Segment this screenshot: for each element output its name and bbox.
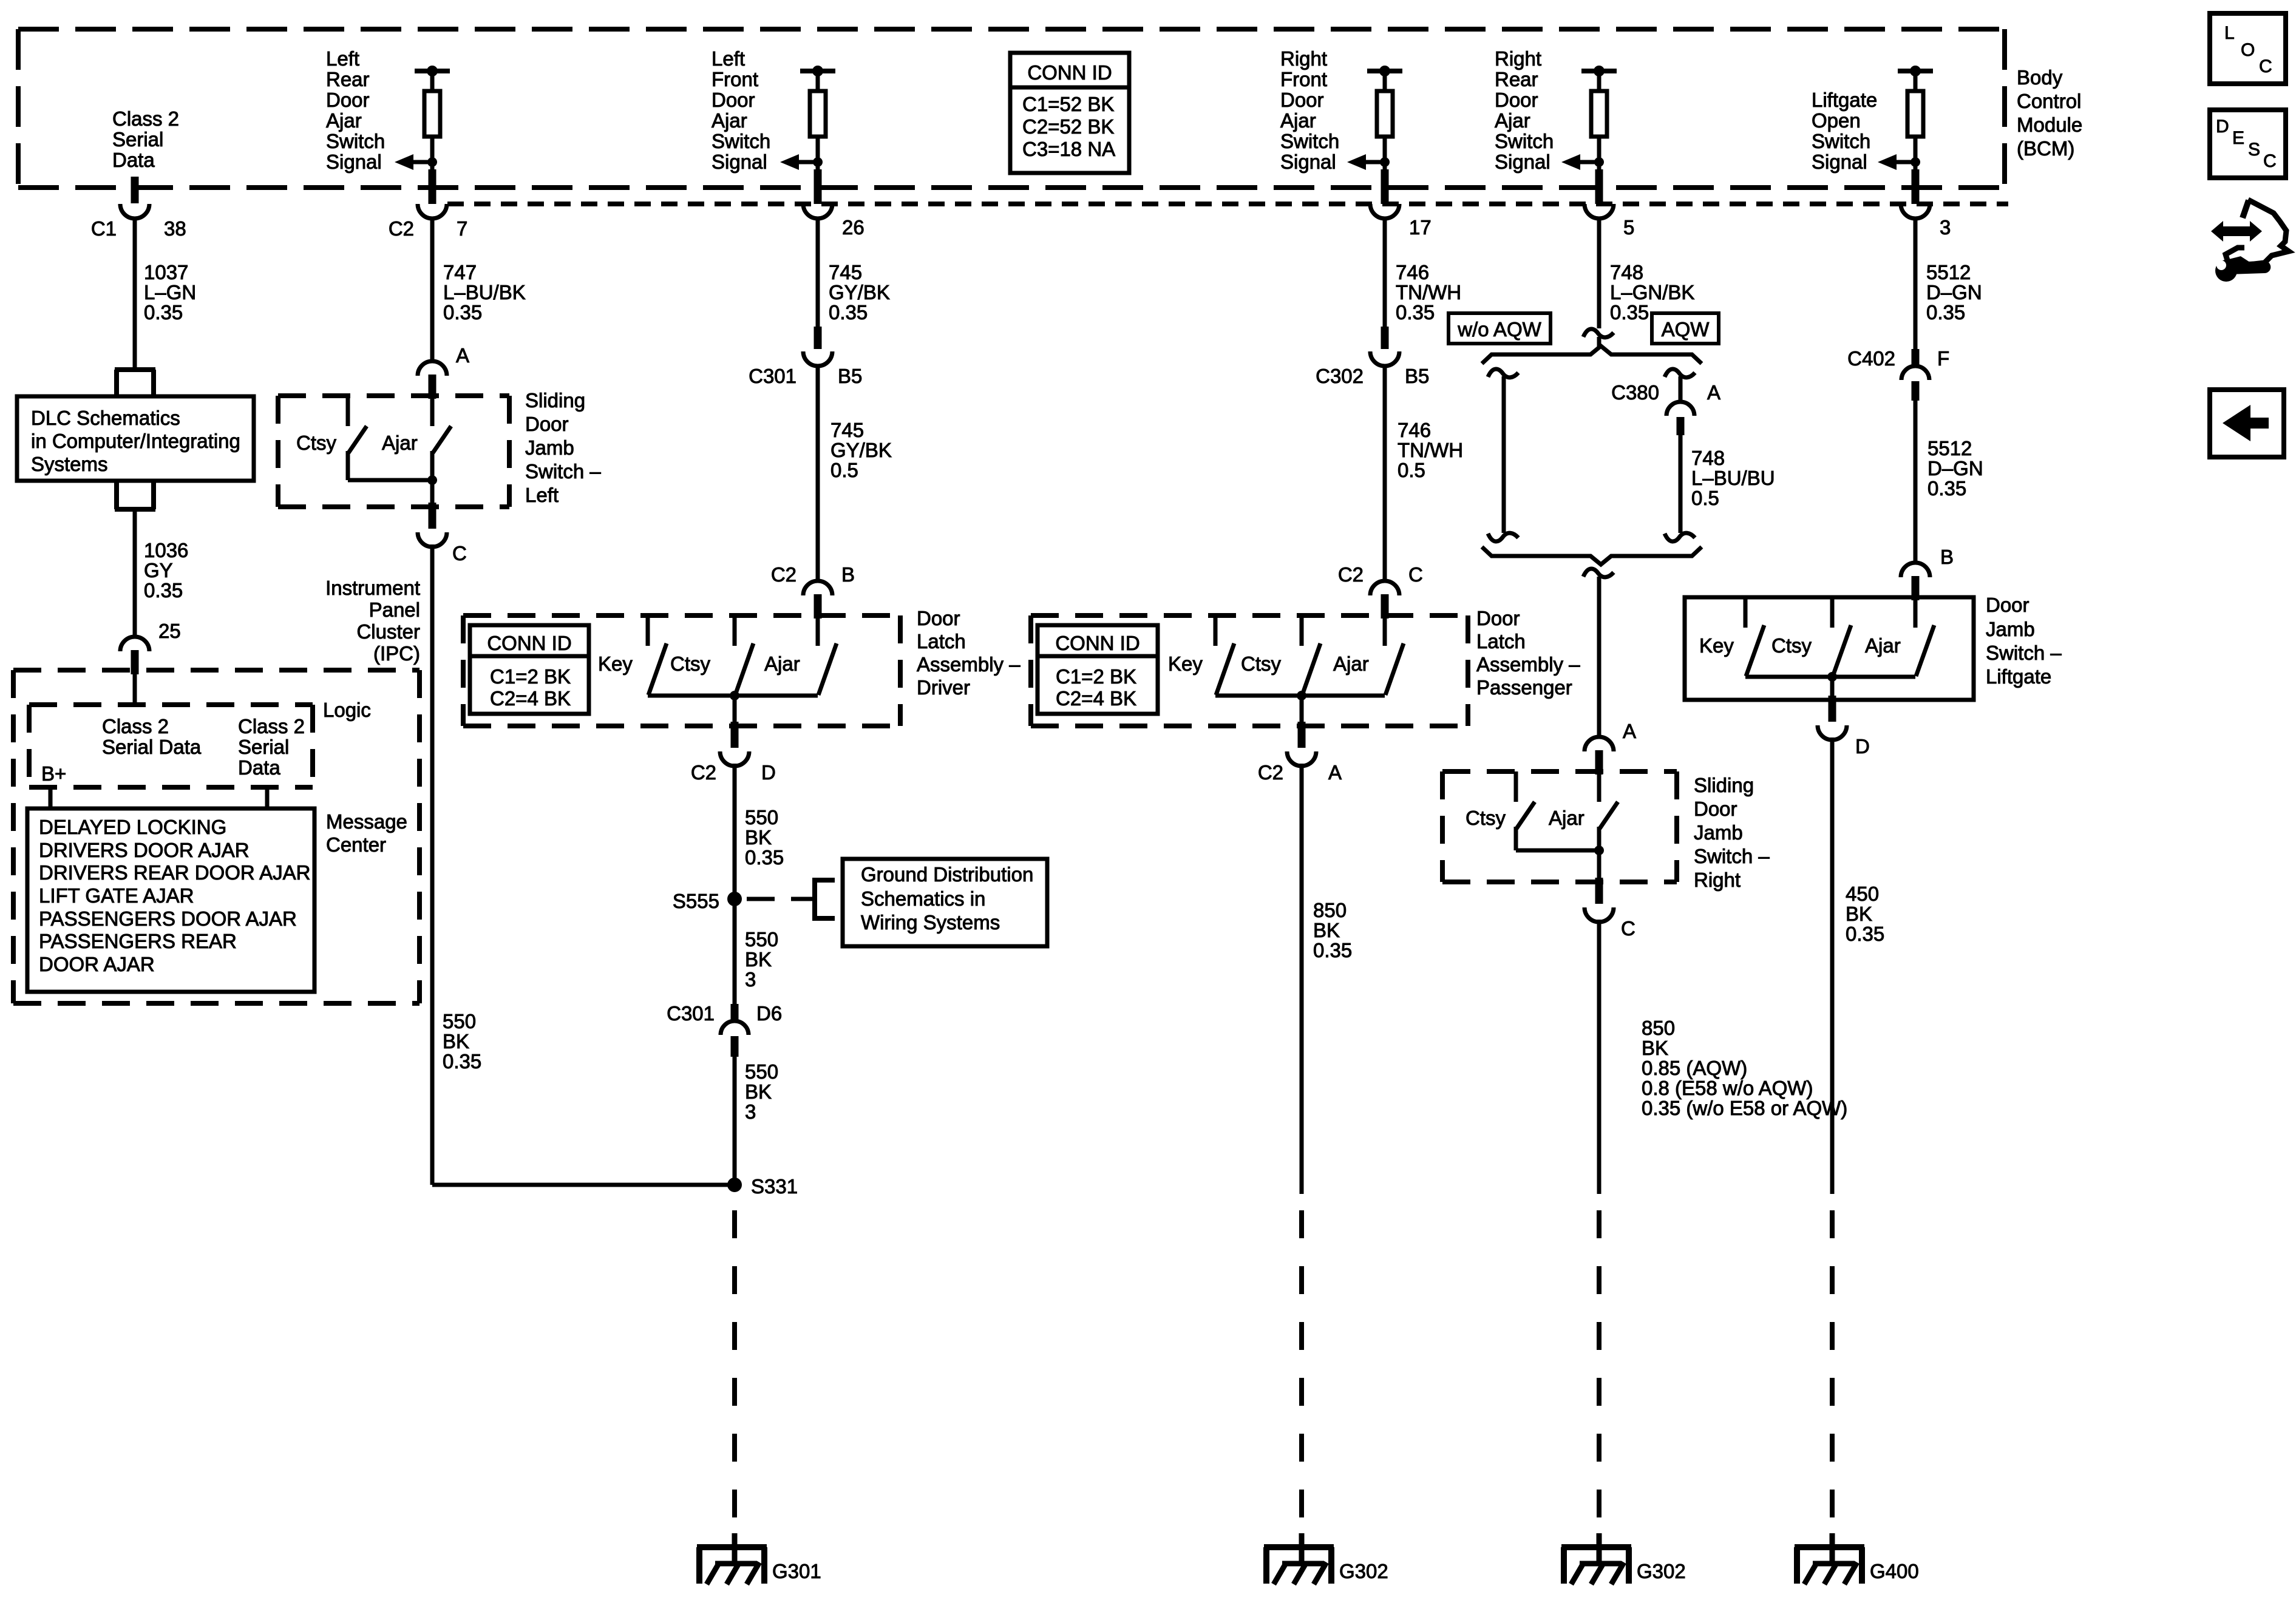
label Message Center (326, 810, 407, 856)
switch Ajar contact (sliding right) (1599, 771, 1618, 850)
svg-text:Ajar: Ajar (764, 653, 800, 675)
arrow left rear door signal (395, 154, 432, 170)
module IPC dashed box (13, 670, 419, 1003)
svg-text:LIFT GATE AJAR: LIFT GATE AJAR (39, 884, 194, 907)
label Logic (323, 699, 371, 721)
label connector C2 pin C (passenger latch) (1338, 563, 1423, 586)
box Logic dashed (29, 705, 313, 787)
label wire 1036 GY 0.35 (144, 539, 188, 602)
svg-text:Ajar: Ajar (326, 109, 362, 132)
svg-text:Left: Left (525, 484, 559, 506)
svg-text:Cluster: Cluster (356, 620, 420, 643)
svg-text:C1: C1 (91, 217, 117, 240)
svg-text:Serial: Serial (112, 128, 163, 151)
label wire 747 L-BU/BK 0.35 (443, 261, 526, 324)
svg-text:Ctsy: Ctsy (1466, 807, 1506, 829)
svg-text:C3=18 NA: C3=18 NA (1022, 138, 1115, 160)
splice S331 (727, 1178, 742, 1192)
svg-text:Instrument: Instrument (325, 577, 420, 599)
svg-text:Ajar: Ajar (1280, 109, 1316, 132)
svg-text:L–BU/BU: L–BU/BU (1691, 467, 1775, 489)
svg-text:D: D (2216, 117, 2229, 137)
svg-text:CONN ID: CONN ID (487, 632, 571, 654)
svg-text:Class 2: Class 2 (102, 715, 169, 737)
svg-text:3: 3 (1940, 216, 1951, 239)
svg-text:Control: Control (2017, 90, 2081, 112)
label connector C2 pin D (driver latch) (691, 761, 776, 784)
svg-text:C: C (1408, 563, 1423, 586)
svg-text:550: 550 (443, 1010, 476, 1032)
BCM pull-up bus bar right rear door (1581, 69, 1617, 73)
svg-text:Switch: Switch (326, 130, 385, 152)
svg-text:CONN ID: CONN ID (1027, 61, 1112, 84)
svg-text:GY/BK: GY/BK (830, 439, 892, 461)
svg-text:Message: Message (326, 810, 407, 833)
connector arc C402 F (1901, 366, 1929, 380)
label wire 745 GY/BK 0.35 (829, 261, 890, 324)
label right rear door ajar switch signal (1495, 47, 1554, 173)
label Sliding Door Jamb Switch - Right (1694, 774, 1770, 891)
svg-text:PASSENGERS REAR: PASSENGERS REAR (39, 930, 237, 952)
label Ctsy (sliding left) (296, 432, 337, 454)
wire right front door resistor to junction (1383, 137, 1387, 169)
svg-text:Left: Left (326, 47, 359, 70)
connector arc A into sliding door jamb switch right (1584, 737, 1614, 775)
connector arc C302 B5 (1370, 351, 1399, 366)
svg-text:G302: G302 (1637, 1560, 1686, 1582)
icon box DESC (2210, 110, 2286, 178)
arrow liftgate open signal (1878, 154, 1915, 170)
BCM pull-up bus bar liftgate open (1898, 69, 1933, 73)
icon service arrow and wrench (2211, 200, 2289, 282)
svg-text:GY/BK: GY/BK (829, 281, 890, 303)
svg-text:Ajar: Ajar (712, 109, 747, 132)
svg-text:C301: C301 (749, 365, 796, 387)
pin stub C380 (1677, 417, 1685, 435)
node dot top right rear door (1594, 66, 1605, 76)
svg-text:25: 25 (158, 620, 181, 642)
connector arc right rear door at BCM face (1584, 204, 1614, 219)
svg-text:Liftgate: Liftgate (1812, 89, 1877, 111)
pin stub A out of passenger latch box (1287, 722, 1316, 766)
svg-text:Data: Data (238, 756, 280, 779)
connector arc left front door at BCM face (803, 204, 832, 219)
node dot top liftgate open (1910, 66, 1921, 76)
label wire 745 GY/BK 0.5 (830, 419, 892, 481)
label pin 25 (158, 620, 181, 642)
wire 747 L-BU/BK (430, 219, 435, 361)
svg-text:B: B (841, 563, 855, 586)
wire 25 to Logic box (133, 673, 137, 705)
label Instrument Panel Cluster (IPC) (325, 577, 420, 665)
svg-text:Ajar: Ajar (1495, 109, 1530, 132)
junction staple above DLC box (115, 370, 155, 396)
pin stub C402 lower (1912, 381, 1920, 401)
table CONN ID (BCM C1=52 BK C2=52 BK C3=18 NA) (1010, 53, 1129, 173)
wire 550 BK 3 lower (733, 1057, 737, 1185)
svg-text:BK: BK (1313, 919, 1340, 941)
svg-text:Signal: Signal (712, 151, 767, 173)
label Ctsy (passenger latch) (1241, 653, 1282, 675)
svg-text:5512: 5512 (1927, 437, 1972, 459)
ground G400 (1795, 1533, 1919, 1584)
svg-text:Sliding: Sliding (1694, 774, 1754, 796)
label Class 2 Serial Data (logic right) (238, 715, 305, 779)
node junction dot left rear door (427, 157, 437, 167)
label Class 2 Serial Data (BCM) (112, 107, 179, 171)
module BCM (Body Control Module) dashed box (18, 29, 2005, 188)
splice S555 (727, 892, 742, 906)
svg-text:Center: Center (326, 833, 386, 856)
svg-text:0.35: 0.35 (1313, 939, 1352, 961)
svg-text:745: 745 (830, 419, 864, 441)
label pin 26 (842, 216, 864, 239)
svg-text:Switch: Switch (712, 130, 770, 152)
wire 850 BK sliding right to ground run (1597, 920, 1601, 1194)
pin stub liftgate open through BCM border (1912, 169, 1920, 204)
option branch left (w/o AQW) start squiggle (1488, 369, 1518, 378)
BCM pull-up bus bar right front door (1367, 69, 1402, 73)
svg-text:A: A (456, 344, 469, 367)
svg-text:0.35: 0.35 (829, 301, 868, 324)
label wire 550 BK 3 (upper) (745, 928, 778, 991)
switch Ajar contact (sliding left) (432, 396, 451, 480)
svg-text:Switch –: Switch – (525, 460, 601, 483)
label left rear door ajar switch signal (326, 47, 385, 173)
connector arc liftgate open at BCM face (1901, 204, 1930, 219)
wire liftgate common down (1830, 677, 1835, 697)
wire 748 L-BU/BU (1679, 435, 1683, 533)
svg-text:Right: Right (1280, 47, 1327, 70)
svg-text:Signal: Signal (1495, 151, 1550, 173)
svg-text:Switch: Switch (1495, 130, 1554, 152)
wire to sliding right switch (1597, 577, 1601, 737)
svg-text:Switch: Switch (1812, 130, 1870, 152)
box Message Center list (27, 808, 314, 992)
box Door Jamb Switch Liftgate (1685, 597, 1974, 700)
svg-text:A: A (1328, 761, 1342, 784)
svg-text:A: A (1623, 720, 1636, 742)
svg-text:Jamb: Jamb (1694, 821, 1743, 844)
svg-text:DRIVERS DOOR AJAR: DRIVERS DOOR AJAR (39, 839, 250, 861)
svg-text:748: 748 (1610, 261, 1643, 283)
switch Ajar contact (driver latch) (818, 615, 837, 695)
svg-text:D6: D6 (756, 1002, 782, 1025)
svg-text:Key: Key (1699, 634, 1734, 657)
svg-text:Open: Open (1812, 109, 1861, 132)
pin stub D out of driver latch box (720, 722, 749, 766)
svg-text:550: 550 (745, 928, 778, 951)
option branch left end squiggle (1488, 533, 1518, 541)
svg-text:D–GN: D–GN (1927, 457, 1983, 480)
switch Key contact (driver latch) (648, 615, 667, 695)
label Key (liftgate) (1699, 634, 1734, 657)
wire switch common link (driver latch) (648, 694, 818, 698)
svg-text:C: C (452, 542, 467, 564)
label Door Latch Assembly - Passenger (1476, 607, 1580, 699)
resistor R4 right rear door ajar input (1591, 91, 1607, 137)
label Ctsy (driver latch) (670, 653, 711, 675)
svg-text:0.35: 0.35 (1927, 477, 1966, 500)
label wire 746 TN/WH 0.5 (1398, 419, 1463, 481)
switch Ctsy contact (sliding left) (348, 396, 367, 480)
label pin 5 (1623, 216, 1634, 239)
node dot top left front door (812, 66, 823, 76)
box Sliding Door Jamb Switch Right dashed (1442, 771, 1677, 882)
svg-text:D: D (1855, 735, 1870, 758)
box option w/o AQW (1449, 313, 1550, 344)
svg-text:C: C (1621, 917, 1635, 940)
svg-text:B+: B+ (41, 762, 66, 785)
wire right front door bar to resistor (1383, 71, 1387, 91)
svg-text:Door: Door (1986, 594, 2029, 616)
BCM pull-up bus bar left rear door (415, 69, 450, 73)
label wire 850 BK 0.35 (1313, 899, 1352, 961)
label wire 550 BK 0.35 (driver) (745, 806, 784, 869)
svg-text:Signal: Signal (1812, 151, 1867, 173)
svg-text:Rear: Rear (326, 68, 370, 90)
svg-text:Left: Left (712, 47, 745, 70)
svg-text:D–GN: D–GN (1926, 281, 1982, 303)
svg-text:Ajar: Ajar (1549, 807, 1584, 829)
svg-text:0.85 (AQW): 0.85 (AQW) (1642, 1057, 1747, 1079)
svg-text:TN/WH: TN/WH (1398, 439, 1463, 461)
node junction dot liftgate open (1911, 157, 1920, 167)
svg-text:B: B (1940, 546, 1954, 568)
svg-text:850: 850 (1313, 899, 1347, 921)
svg-text:B5: B5 (1405, 365, 1429, 387)
brace option split top (1482, 346, 1702, 364)
pin stub D out of liftgate box (1818, 696, 1847, 740)
svg-text:0.8 (E58 w/o AQW): 0.8 (E58 w/o AQW) (1642, 1077, 1813, 1099)
svg-text:L–GN/BK: L–GN/BK (1610, 281, 1694, 303)
svg-text:C301: C301 (667, 1002, 715, 1025)
svg-text:F: F (1937, 347, 1949, 370)
svg-text:C2: C2 (1258, 761, 1283, 784)
wire liftgate open resistor to junction (1914, 137, 1918, 169)
wire left front door bar to resistor (816, 71, 820, 91)
svg-text:DRIVERS REAR DOOR AJAR: DRIVERS REAR DOOR AJAR (39, 861, 310, 884)
svg-text:Ajar: Ajar (382, 432, 418, 454)
svg-text:7: 7 (457, 217, 467, 240)
label Ajar (liftgate) (1865, 634, 1901, 657)
svg-text:Ctsy: Ctsy (670, 653, 711, 675)
node dot top right front door (1379, 66, 1390, 76)
svg-text:BK: BK (443, 1030, 469, 1053)
wire 748 L-GN/BK (1597, 219, 1601, 328)
connector arc C2 C into passenger latch (1370, 581, 1399, 619)
wire 550 BK 3 upper (733, 899, 737, 1005)
node dot liftgate common (1827, 672, 1837, 682)
svg-text:Door: Door (1495, 89, 1538, 111)
label wire 450 BK 0.35 (1846, 883, 1884, 945)
svg-text:Liftgate: Liftgate (1986, 665, 2051, 688)
svg-text:Ctsy: Ctsy (1241, 653, 1282, 675)
label wire 850 BK sizes (1642, 1017, 1847, 1119)
icon box LOC (2210, 13, 2286, 84)
svg-text:Ajar: Ajar (1333, 653, 1369, 675)
svg-text:Key: Key (1168, 653, 1203, 675)
label Key (passenger latch) (1168, 653, 1203, 675)
svg-text:G302: G302 (1339, 1560, 1388, 1582)
label Ajar (driver latch) (764, 653, 800, 675)
svg-text:17: 17 (1409, 216, 1432, 239)
svg-text:747: 747 (443, 261, 477, 283)
svg-text:BK: BK (1642, 1037, 1668, 1059)
wire dashed sliding right to G302 (1597, 1194, 1601, 1517)
box Ground Distribution note (843, 859, 1047, 946)
pin stub left front door through BCM border (814, 169, 822, 204)
node dot sliding left common (427, 475, 437, 485)
pin stub C out of sliding left box (418, 503, 447, 547)
svg-text:850: 850 (1642, 1017, 1675, 1039)
svg-text:Serial: Serial (238, 736, 289, 758)
svg-text:CONN ID: CONN ID (1055, 632, 1140, 654)
wire dashed liftgate to G400 (1830, 1194, 1835, 1517)
svg-text:Driver: Driver (917, 676, 970, 699)
svg-text:Panel: Panel (369, 598, 420, 621)
svg-text:450: 450 (1846, 883, 1879, 905)
connector arc C1 pin 38 (120, 204, 149, 219)
svg-text:0.35: 0.35 (1926, 301, 1965, 324)
pin stub C out of sliding right box (1584, 878, 1614, 922)
label pin 3 (1940, 216, 1951, 239)
switch Ctsy contact (passenger latch) (1302, 615, 1320, 695)
wire option branch left (1502, 376, 1506, 533)
svg-text:0.35: 0.35 (443, 1050, 481, 1073)
label wire 550 BK 3 (lower) (745, 1060, 778, 1123)
wire 746 TN/WH lower (1383, 366, 1387, 581)
svg-text:Logic: Logic (323, 699, 371, 721)
svg-text:C302: C302 (1316, 365, 1364, 387)
resistor R3 right front door ajar input (1377, 91, 1393, 137)
svg-text:C1=52 BK: C1=52 BK (1022, 93, 1114, 115)
svg-text:Body: Body (2017, 66, 2063, 89)
label connector C301 pin B5 (749, 365, 862, 387)
svg-text:Data: Data (112, 149, 155, 171)
wire switch common link (sliding left) (348, 478, 432, 483)
module Door Latch Assembly Driver dashed box (463, 615, 900, 726)
wire sliding right common down (1597, 850, 1601, 879)
svg-text:Jamb: Jamb (1986, 618, 2035, 640)
wire switch common link (sliding right) (1516, 849, 1599, 853)
label connector C1 pin 38 (91, 217, 186, 240)
label connector C402 pin F (1847, 347, 1949, 370)
svg-text:BK: BK (1846, 903, 1872, 925)
svg-text:Switch –: Switch – (1986, 642, 2062, 664)
svg-text:L–BU/BK: L–BU/BK (443, 281, 526, 303)
switch Key contact (liftgate) (1745, 597, 1764, 676)
wire liftgate open bar to resistor (1914, 71, 1918, 91)
svg-text:C1=2 BK: C1=2 BK (490, 665, 571, 688)
label connector C301 pin D6 (667, 1002, 782, 1025)
svg-text:A: A (1707, 381, 1720, 404)
svg-text:L–GN: L–GN (144, 281, 196, 303)
svg-text:Front: Front (1280, 68, 1327, 90)
svg-text:Wiring Systems: Wiring Systems (861, 911, 1000, 934)
label connector C2 pin A (passenger latch) (1258, 761, 1342, 784)
svg-text:Switch: Switch (1280, 130, 1339, 152)
svg-text:C2: C2 (389, 217, 414, 240)
svg-text:TN/WH: TN/WH (1396, 281, 1461, 303)
arrow right rear door signal (1561, 154, 1599, 170)
label wire 550 BK 0.35 (long run) (443, 1010, 481, 1073)
junction staple below DLC box (115, 481, 155, 509)
svg-text:Serial Data: Serial Data (102, 736, 202, 758)
svg-text:0.35: 0.35 (1846, 923, 1884, 945)
svg-text:0.5: 0.5 (1691, 487, 1719, 509)
svg-text:C2: C2 (1338, 563, 1364, 586)
svg-text:Door: Door (1476, 607, 1520, 629)
node junction dot right front door (1380, 157, 1390, 167)
svg-text:S331: S331 (751, 1175, 798, 1198)
wire sliding left common down (430, 480, 435, 504)
bracket to ground distribution note (815, 880, 835, 918)
label right front door ajar switch signal (1280, 47, 1339, 173)
label pin B (liftgate) (1940, 546, 1954, 568)
node dot sliding right common (1594, 846, 1604, 855)
wire 5512 D-GN lower (1914, 401, 1918, 563)
pin stub left rear door through BCM border (429, 169, 436, 204)
wire dashed passenger to G302 (1299, 1194, 1304, 1517)
label pin A (sliding left) (456, 344, 469, 367)
svg-text:0.35: 0.35 (443, 301, 482, 324)
wire left rear door resistor to junction (430, 137, 435, 169)
svg-text:Ctsy: Ctsy (1771, 634, 1812, 657)
wire passenger latch common down (1300, 696, 1304, 722)
module Door Latch Assembly Passenger dashed box (1031, 615, 1468, 726)
pin stub C302 B5 (1381, 327, 1389, 349)
svg-text:Assembly –: Assembly – (917, 653, 1021, 676)
wire dashed S331 to G301 (732, 1192, 737, 1517)
label Sliding Door Jamb Switch - Left (525, 389, 601, 506)
svg-text:3: 3 (745, 968, 756, 991)
pin stub C301 D6 upper (731, 1004, 739, 1022)
label S555 (673, 890, 719, 912)
switch Ctsy contact (sliding right) (1516, 771, 1535, 850)
svg-text:PASSENGERS DOOR AJAR: PASSENGERS DOOR AJAR (39, 907, 297, 930)
svg-text:O: O (2241, 40, 2255, 60)
svg-text:745: 745 (829, 261, 862, 283)
label S331 (751, 1175, 798, 1198)
wire serial data to message center (265, 787, 270, 808)
svg-text:0.5: 0.5 (1398, 459, 1425, 481)
resistor R5 liftgate open ajar input (1907, 91, 1923, 137)
pin stub right front door through BCM border (1381, 169, 1389, 204)
label wire 5512 D-GN 0.35 (lower) (1927, 437, 1983, 500)
label Door Jamb Switch - Liftgate (1986, 594, 2062, 688)
label pin 17 (1409, 216, 1432, 239)
icon box back arrow (2210, 390, 2284, 457)
label B+ (41, 762, 66, 785)
svg-text:C2=52 BK: C2=52 BK (1022, 115, 1114, 138)
svg-text:0.35: 0.35 (1396, 301, 1435, 324)
svg-text:G301: G301 (772, 1560, 821, 1582)
connector arc right front door at BCM face (1370, 204, 1399, 219)
wire 5512 D-GN upper (1914, 219, 1918, 350)
svg-text:C: C (2263, 151, 2277, 171)
pin stub C301 D6 lower (731, 1036, 739, 1057)
label liftgate open ajar switch signal (1812, 89, 1877, 173)
wire 1036 GY (133, 509, 137, 637)
brace option split bottom (1482, 547, 1702, 564)
label connector C302 pin B5 (1316, 365, 1429, 387)
label Ajar (sliding left) (382, 432, 418, 454)
label pin C (sliding left) (452, 542, 467, 564)
connector arc C380 A (1666, 402, 1694, 416)
svg-text:1037: 1037 (144, 261, 188, 283)
svg-text:550: 550 (745, 806, 778, 829)
